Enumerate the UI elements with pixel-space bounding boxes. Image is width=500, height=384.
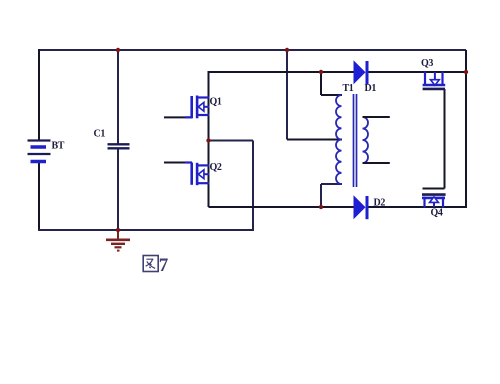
svg-text:Q3: Q3: [421, 58, 433, 69]
label T1: [343, 83, 354, 94]
transformer T1 primary winding: [336, 95, 342, 184]
wire center tap horizontal: [287, 139, 342, 141]
wire Q1 gate stub: [164, 116, 192, 118]
node junction dot ground: [116, 228, 120, 232]
wire top rail: [39, 49, 466, 51]
wire Q1 drain to D1 anode: [208, 71, 355, 73]
transistor Q2: [185, 163, 210, 186]
node junction dot C1 top: [116, 48, 120, 52]
wire center-tap feed vertical x287: [286, 50, 288, 140]
node junction dot Q3 right rail: [464, 70, 468, 74]
svg-text:Q4: Q4: [431, 208, 443, 219]
wire Q1 Q2 main vertical: [208, 71, 210, 207]
label Q4: [431, 208, 443, 219]
svg-text:Q2: Q2: [210, 162, 222, 173]
label D2: [374, 198, 386, 209]
svg-text:BT: BT: [52, 141, 65, 152]
wire D1 cathode to Q3 to right rail: [367, 71, 466, 73]
label BT: [52, 141, 65, 152]
svg-text:C1: C1: [94, 129, 106, 140]
label figure caption 图7: [143, 255, 169, 276]
svg-text:D2: D2: [374, 198, 386, 209]
wire bottom rail: [38, 229, 254, 231]
capacitor C1: [108, 144, 130, 148]
transistor Q1: [185, 96, 210, 119]
wire battery top lead: [38, 49, 40, 140]
label Q2: [210, 162, 222, 173]
diode D2: [354, 196, 367, 219]
svg-text:T1: T1: [343, 83, 354, 94]
svg-text:7: 7: [159, 255, 169, 276]
wire secondary top lead: [363, 116, 390, 118]
ground: [106, 230, 130, 251]
wire right rail vertical: [465, 50, 467, 207]
transistor Q4: [422, 195, 446, 208]
battery BT: [28, 141, 51, 162]
label Q1: [210, 97, 222, 108]
transformer T1 core: [354, 94, 357, 187]
wire battery bottom lead: [38, 162, 40, 231]
transistor Q3: [423, 72, 446, 89]
wire midpoint to x253: [209, 140, 254, 142]
svg-text:D1: D1: [365, 83, 377, 94]
wire C1 top lead: [117, 50, 119, 144]
diode D1: [354, 61, 367, 84]
wire primary top feed: [321, 72, 342, 95]
wire Q2 gate stub: [164, 162, 192, 164]
svg-text:Q1: Q1: [210, 97, 222, 108]
wire primary bottom lead: [321, 184, 342, 207]
wire D2 cathode to Q4 to right rail: [367, 206, 467, 208]
wire x253 vertical to bottom rail: [252, 141, 254, 231]
node junction dot primary top D1: [319, 70, 323, 74]
wire C1 bottom lead: [117, 148, 119, 230]
wire secondary bottom lead: [363, 162, 390, 164]
transformer T1 secondary winding: [363, 117, 369, 163]
label D1: [365, 83, 377, 94]
node junction dot Q1 Q2 midpoint: [206, 138, 210, 142]
wire Q3 gate to Q4 gate tie: [423, 89, 445, 189]
label Q3: [421, 58, 433, 69]
node junction dot center tap feed: [285, 48, 289, 52]
label C1: [94, 129, 106, 140]
node junction dot primary bottom D2: [319, 205, 323, 209]
wire Q2 source to D2 anode: [209, 206, 355, 208]
